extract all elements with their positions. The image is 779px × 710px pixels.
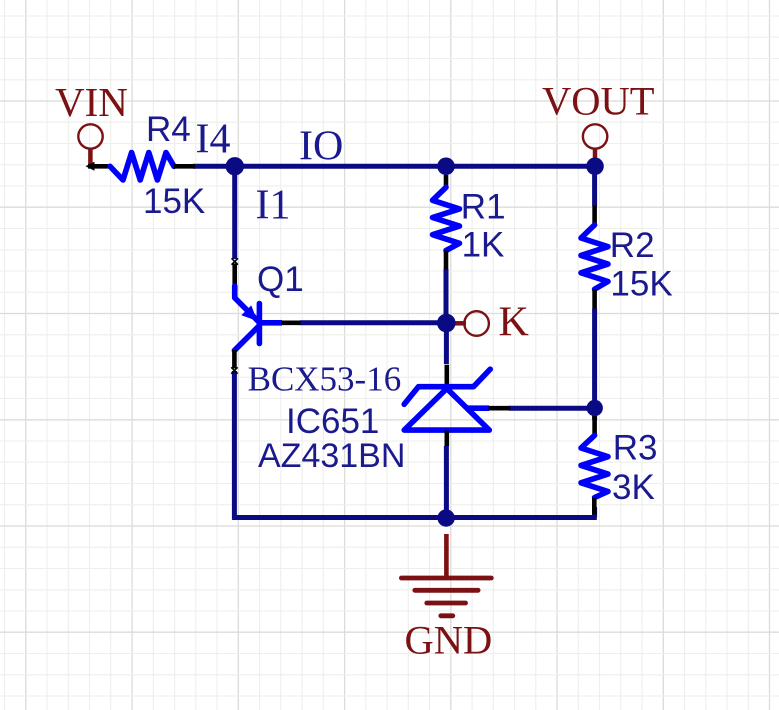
ground bar 1: [401, 576, 491, 581]
svg-text:1K: 1K: [462, 225, 505, 264]
svg-text:VOUT: VOUT: [542, 79, 655, 124]
svg-text:VIN: VIN: [55, 79, 128, 125]
junction dot ref node: [587, 400, 603, 416]
svg-text:Q1: Q1: [257, 260, 304, 299]
junction dot VOUT: [586, 158, 604, 176]
wire R2 bottom to ref junction: [592, 309, 597, 421]
transistor Q1 base lead blue: [260, 320, 282, 326]
transistor Q1 collector pin black: [232, 350, 237, 369]
wire I1 (vertical from I4 junction down to Q1 emitter): [232, 166, 237, 259]
resistor R4 body: [110, 153, 174, 181]
svg-text:3K: 3K: [612, 468, 655, 507]
svg-text:15K: 15K: [610, 264, 672, 303]
resistor R4 pin 1 (black): [88, 164, 110, 169]
pin arrow at VIN: [86, 162, 95, 171]
IC651 AZ431 anode triangle: [404, 389, 489, 431]
svg-text:R3: R3: [613, 429, 658, 468]
wire VOUT column upper (dot to R2): [592, 166, 597, 206]
svg-text:I1: I1: [256, 182, 291, 228]
IC651 AZ431 ref lead blue: [468, 405, 490, 411]
pin hotspot mark collector: [231, 367, 237, 373]
junction dot K node: [437, 314, 456, 333]
wire AZ431 anode to bottom rail: [444, 446, 449, 518]
wire collector to bottom rail: [232, 371, 237, 520]
wire Q1 base to K node: [300, 320, 446, 325]
svg-text:15K: 15K: [143, 182, 205, 221]
wire R3 bottom corner: [592, 507, 597, 518]
wire R1 bottom to K node: [444, 269, 449, 323]
IC651 AZ431 cathode pin black: [444, 365, 449, 388]
resistor R3 pin 1 black: [592, 416, 597, 435]
transistor Q1 emitter pin black: [232, 263, 237, 286]
svg-text:R2: R2: [610, 226, 655, 265]
IC651 AZ431 ref pin black: [489, 406, 511, 411]
resistor R1 pin 1 black: [444, 175, 449, 187]
transistor Q1 base bar: [257, 304, 263, 344]
ground bar 3: [427, 601, 466, 606]
transistor Q1 emitter arrow (PNP): [241, 305, 257, 321]
port VOUT stub: [593, 148, 598, 160]
wire K node to AZ431 cathode: [444, 323, 449, 364]
transistor Q1 collector lead blue: [234, 326, 259, 351]
resistor R2 pin 2 black: [592, 289, 597, 308]
resistor R2 body: [581, 225, 608, 289]
svg-text:IC651: IC651: [286, 402, 379, 441]
resistor R1 body: [433, 187, 460, 250]
ground bar 4: [441, 613, 453, 618]
wire IO (top horizontal net VIN->VOUT): [193, 164, 595, 169]
IC651 AZ431 cathode bar with zener tails: [404, 369, 490, 404]
svg-text:I4: I4: [196, 117, 231, 163]
port K terminal circle: [464, 311, 489, 336]
svg-text:R4: R4: [146, 110, 191, 149]
svg-text:GND: GND: [405, 618, 493, 663]
wire bottom rail: [232, 515, 597, 520]
port K stub: [453, 321, 466, 326]
transistor Q1 base pin black: [281, 320, 300, 325]
resistor R3 body: [581, 435, 608, 497]
transistor Q1 emitter lead blue: [235, 286, 259, 322]
svg-text:R1: R1: [461, 188, 506, 227]
svg-text:IO: IO: [299, 123, 343, 169]
resistor R2 pin 1 black: [592, 206, 597, 225]
port VIN terminal circle: [78, 124, 102, 148]
resistor R1 pin 2 black: [444, 251, 449, 270]
junction dot R1 top: [437, 158, 455, 176]
IC651 AZ431 anode pin black: [444, 431, 449, 447]
svg-text:AZ431BN: AZ431BN: [258, 437, 405, 475]
port VOUT terminal circle: [583, 124, 607, 148]
port VIN stub: [88, 148, 93, 165]
ground GND stub: [444, 534, 449, 578]
svg-text:K: K: [499, 299, 529, 345]
resistor R4 pin 2 (black): [174, 164, 195, 169]
junction dot ground node: [437, 509, 454, 526]
svg-text:BCX53-16: BCX53-16: [248, 360, 402, 399]
junction dot I4: [226, 157, 244, 175]
pin hotspot mark emitter: [232, 258, 238, 264]
ground bar 2: [415, 588, 478, 593]
wire AZ431 ref to R2/R3 junction: [509, 406, 595, 411]
resistor R3 pin 2 black: [592, 498, 597, 515]
